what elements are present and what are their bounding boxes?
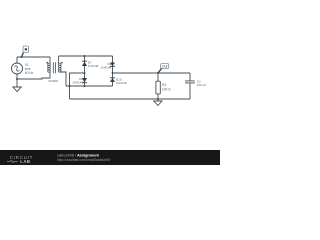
svg-text:1N4148: 1N4148 <box>116 81 127 85</box>
svg-text:1N4148: 1N4148 <box>72 80 83 84</box>
svg-text:1N4148: 1N4148 <box>101 65 112 69</box>
svg-text:R4: R4 <box>162 83 166 87</box>
svg-text:1N4148: 1N4148 <box>88 64 99 68</box>
svg-text:LAB: LAB <box>20 159 30 164</box>
svg-text:100 µF: 100 µF <box>197 83 207 87</box>
svg-text:60 Hz: 60 Hz <box>25 71 34 75</box>
svg-text:catro1408 / Assignment: catro1408 / Assignment <box>57 153 100 157</box>
svg-text:http://circuitlab.com/cmc65aab: http://circuitlab.com/cmc65aab4w59/ <box>57 158 110 162</box>
svg-text:XFMR1: XFMR1 <box>48 79 58 83</box>
svg-text:100 Ω: 100 Ω <box>162 87 171 91</box>
svg-text:Out: Out <box>162 64 168 68</box>
